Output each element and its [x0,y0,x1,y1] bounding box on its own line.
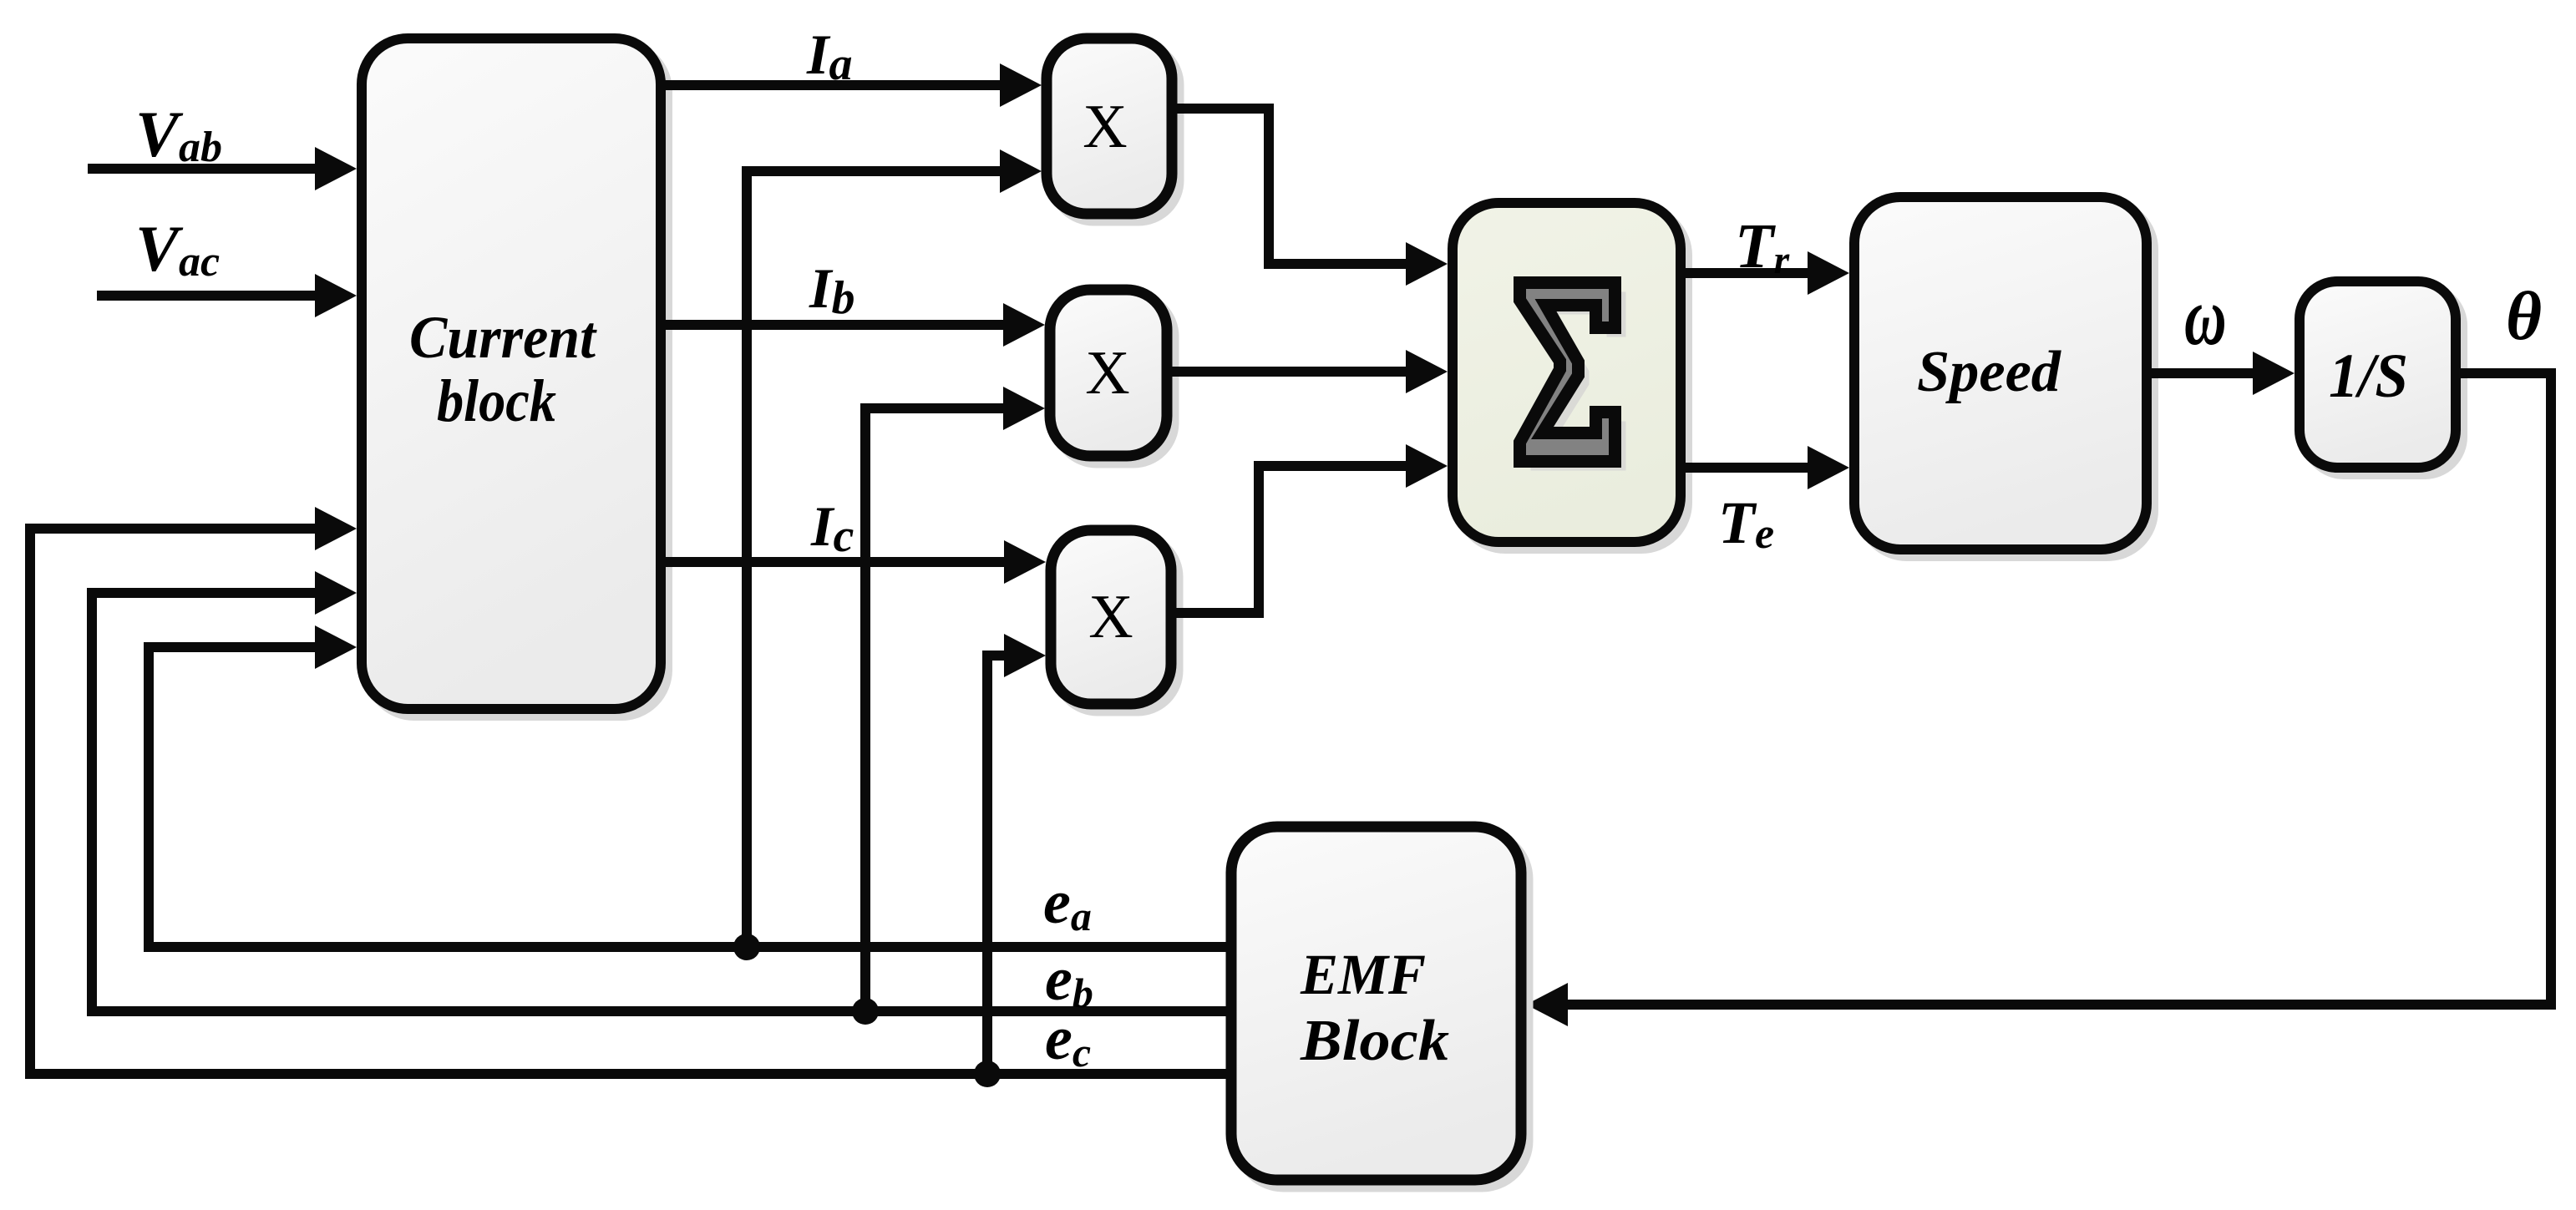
label Vac [135,212,220,286]
wire eb feedback loop (EMF out eb to Current block middle input) [92,571,1231,1011]
label Ic [810,494,854,562]
label Ib [809,256,854,324]
svg-text:block: block [437,367,556,434]
label omega [2184,270,2227,362]
svg-text:X: X [1083,93,1127,161]
svg-text:θ: θ [2506,277,2542,354]
label ec [1045,1005,1091,1076]
junction dot eb [852,998,879,1025]
wire Ia (Current block to X1) [661,63,1042,107]
multiplier X2 [1050,290,1174,463]
label Tr [1735,211,1790,282]
wire ec feedback loop (EMF out ec to Current block top input) [30,507,1231,1074]
svg-text:ω: ω [2184,270,2227,362]
block Current block [362,38,667,716]
svg-text:X: X [1088,583,1133,651]
label Te [1718,489,1774,558]
wire Ic (Current block to X3) [661,540,1046,584]
svg-text:Current: Current [409,304,597,371]
label Vab [135,98,222,171]
wire ea feedback loop (EMF out ea to Current block bottom input) [149,625,1231,947]
wire X1 output to summer input 1 [1176,109,1448,286]
wire Vac input [97,274,357,317]
svg-text:EMF: EMF [1300,943,1426,1006]
label ea [1043,868,1092,939]
wire eb to X2 second input [865,387,1045,1011]
junction dot ea [733,934,760,960]
svg-text:X: X [1085,339,1129,408]
svg-text:Block: Block [1300,1009,1449,1073]
wire Te (summer to Speed) [1681,446,1849,489]
block Speed [1854,197,2153,556]
label Ia [806,23,852,90]
junction dot ec [974,1061,1001,1087]
wire Tr (summer to Speed) [1681,251,1849,295]
multiplier X1 [1047,38,1179,220]
label eb [1045,945,1093,1016]
multiplier X3 [1051,530,1178,711]
wire X2 output to summer input 2 [1167,350,1448,393]
wire omega (Speed to 1/S) [2147,352,2295,395]
summer block sigma [1453,203,1687,549]
wire Ib (Current block to X2) [661,303,1045,347]
svg-text:1/S: 1/S [2329,342,2408,411]
svg-text:Speed: Speed [1917,340,2061,404]
label theta [2506,277,2542,354]
wire theta feedback (1/S to EMF block) [1526,373,2551,1026]
wire ea to X1 second input [747,149,1042,947]
block 1/S integrator [2300,281,2462,474]
wire X3 output to summer input 3 [1171,444,1448,613]
wire Vab input [88,147,357,190]
block EMF [1231,827,1528,1187]
wire ec to X3 second input [987,634,1046,1074]
